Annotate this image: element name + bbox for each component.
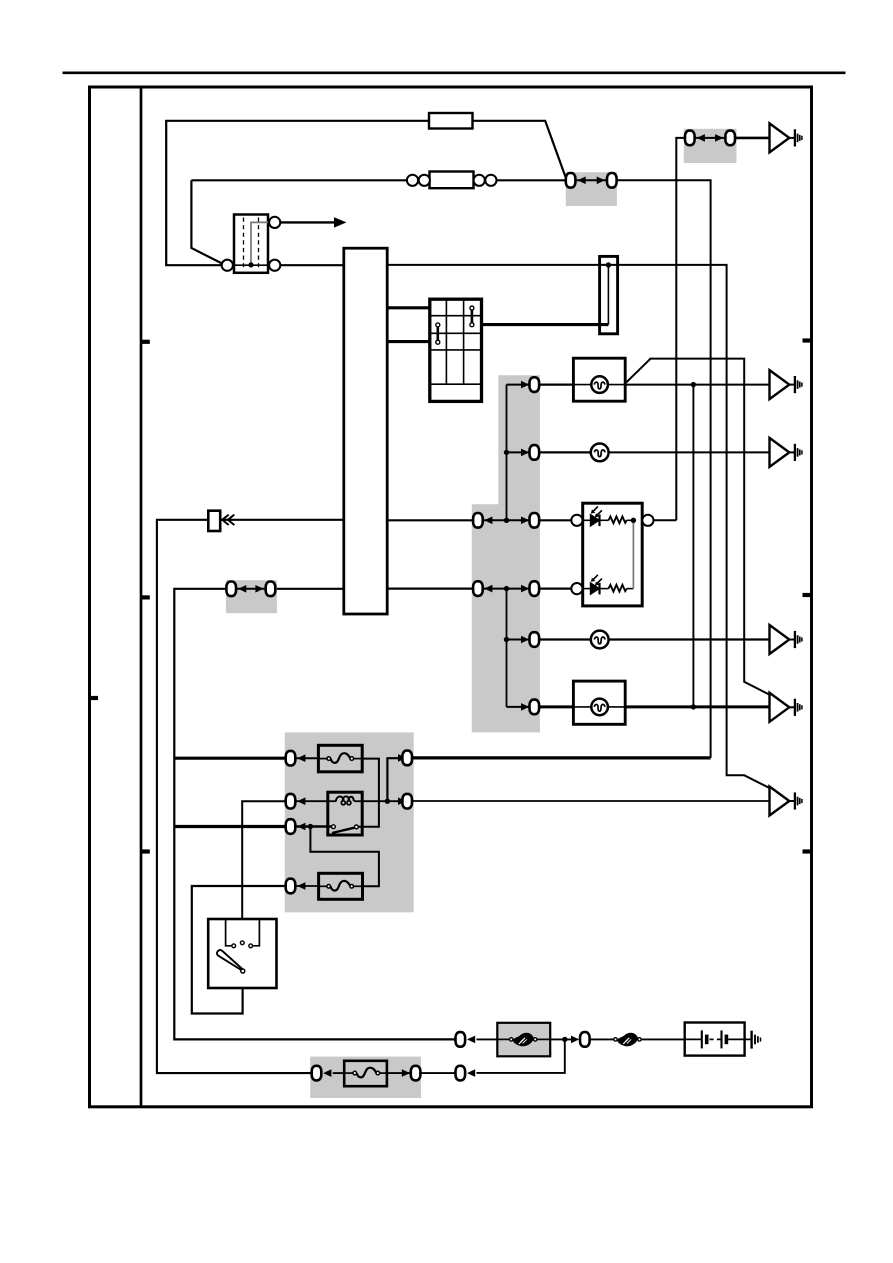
wire coil row: relay to oval2R — [362, 800, 401, 802]
arrow to other system — [281, 217, 347, 227]
wire row D left: ECU to pair C5 — [277, 588, 344, 590]
row F feed line — [507, 706, 530, 708]
relay coil — [328, 796, 362, 804]
pin circle LED left1 — [571, 515, 582, 526]
wire row1 arrow line to fuse F1 — [296, 757, 318, 759]
ECU block U1 — [344, 248, 387, 614]
wire W1 right segment — [473, 121, 566, 177]
bulb L4 — [591, 699, 608, 716]
connector oval 3L with arrow — [286, 819, 306, 834]
wire lamp1 diagonal tap to y358.6 — [626, 359, 770, 695]
wire row B: lamp2 to ground G3 — [608, 451, 769, 453]
gray highlight: junction-connector band (rows A-F) — [472, 375, 540, 732]
connector pin ovals row D with arrows — [473, 581, 539, 596]
junction dots on busbars — [504, 450, 509, 455]
wire row C: CR to LED pin — [540, 519, 571, 521]
wire W2 horizontal — [191, 179, 565, 181]
wire row3 thick left feed — [174, 825, 285, 828]
wire W2 left drop — [191, 180, 221, 263]
ground G2 — [770, 370, 802, 399]
wire C1 pair to ground G1 — [736, 137, 770, 140]
connector pair C1 top right — [685, 131, 735, 146]
pin circle NF bottom-right — [269, 260, 280, 271]
wire NF to ECU — [280, 264, 344, 266]
connector oval 1R with arrow — [398, 751, 412, 766]
wire F1 out down to relay contact — [357, 759, 379, 827]
junction dot relay coil row — [385, 799, 390, 804]
S1 contact bar col1 — [436, 323, 440, 344]
junction dot bottom — [562, 1037, 567, 1042]
ground G5 — [770, 693, 802, 722]
fuse F3 internal stubs — [344, 1072, 353, 1074]
pin circle W2-c — [474, 175, 485, 186]
section tick left-inner y597 — [141, 595, 150, 599]
switch SW box — [208, 919, 276, 988]
junction dot JB — [606, 262, 611, 267]
connector oval 1L with arrow — [286, 751, 306, 766]
fuse F2 symbol — [327, 881, 354, 891]
chevrons into R3 — [222, 515, 234, 525]
SW pivot — [241, 969, 245, 973]
connector pair C5 — [226, 582, 275, 597]
connector pin ovals row C with arrows — [473, 513, 539, 528]
wire from C1 pair to vertical x676 — [676, 138, 684, 520]
wire coil row: oval2L to relay box — [296, 800, 328, 802]
wire gear switch output to JB — [482, 323, 609, 326]
JB internal drop — [607, 265, 609, 325]
pin circle NF top-right — [269, 217, 280, 228]
pin circle W2-d — [485, 175, 496, 186]
connector R3 small rect — [208, 511, 220, 531]
wire ECU to gear switch row1 — [387, 306, 430, 309]
FL internal stubs — [497, 1038, 510, 1040]
connector oval 2R with arrow — [398, 794, 412, 809]
row 1039 oval left — [456, 1032, 466, 1047]
section tick left-outer y698 — [90, 696, 99, 700]
ground G3 — [770, 438, 802, 467]
vertical link x693 row A to row F — [692, 385, 694, 707]
wire to fuse F3 — [333, 1072, 345, 1074]
resistor in LED row1 — [609, 517, 627, 524]
connector pair C2 on wire2 — [566, 173, 617, 188]
pin circle W2-a — [407, 175, 418, 186]
noise filter NF box with dashed shield — [234, 215, 270, 273]
row A feed line — [507, 384, 530, 386]
SW right contact — [249, 919, 260, 948]
gray highlight: connector pair C2 (wire2) — [566, 172, 617, 206]
connector oval 4L with arrow — [286, 879, 306, 894]
wire FL2 to battery — [641, 1038, 685, 1040]
wire y265 through JB — [600, 264, 618, 266]
row E feed line — [507, 639, 530, 641]
wire row C far left with drop x157 — [157, 520, 311, 1073]
wire row D: DR to LED pin — [540, 587, 571, 589]
outer border frame — [90, 87, 812, 1107]
junction dot LED — [631, 518, 636, 523]
fusible link FL2 — [614, 1033, 641, 1047]
wire to FL2 — [590, 1038, 615, 1040]
top horizontal rule — [63, 72, 846, 75]
gray highlight: bottom fuse box — [310, 1057, 421, 1098]
bulb L3 — [591, 631, 609, 649]
fuse F1 box — [318, 745, 362, 772]
wire ECU to gear switch row3 — [387, 340, 430, 343]
fuse F1 internal stubs — [318, 758, 327, 760]
connector pin oval row A with arrow — [521, 377, 539, 392]
gray highlight: relay/fuse block — [285, 732, 414, 912]
wire G6 feed: oval2R to ground — [413, 800, 770, 802]
wire W1 top loop — [166, 121, 429, 265]
LED unit box — [583, 503, 643, 606]
fuse F3 box — [344, 1061, 387, 1086]
wire thick row1 right: oval1R to x710 — [413, 756, 711, 759]
wire F3 to oval — [387, 1072, 410, 1074]
drop to row 1073 — [477, 1039, 565, 1073]
gray highlight: connector pair C1 (top right) — [684, 129, 737, 163]
gray highlight: connector pair C5 (row D left) — [226, 580, 277, 613]
pin circle W2-b — [419, 175, 430, 186]
battery BAT — [685, 1023, 752, 1056]
wire FL to dot — [550, 1038, 575, 1040]
relay contacts — [332, 825, 359, 833]
wire row3: oval3L to relay — [296, 825, 332, 827]
S1 contact bar col3 — [470, 306, 474, 327]
section tick right y595 — [803, 593, 812, 597]
bulb L1 — [591, 376, 608, 393]
wire to FL box — [477, 1038, 498, 1040]
wire row C: ECU to oval CL — [387, 519, 472, 521]
connector pin oval row B with arrow — [521, 445, 539, 460]
wire row F: lamp4 to ground G5 — [625, 705, 769, 708]
junction box JB tall — [600, 256, 618, 333]
row 1073: oval far left — [312, 1066, 322, 1081]
wire row4 left loop to ignition switch — [192, 886, 285, 1014]
fuse F1 symbol — [327, 753, 354, 763]
wire relay feed riser to oval1R — [387, 758, 401, 801]
ground G1 — [770, 123, 802, 152]
LED D1 — [590, 507, 602, 527]
connector pin oval row E with arrow — [521, 632, 539, 647]
resistor box R2 on wire W2 — [430, 172, 474, 189]
wire row A: lamp1 to ground G2 — [625, 384, 769, 386]
wire coil row left: oval2L to switch drop — [242, 801, 285, 941]
wire W2 right segment to drop — [617, 180, 710, 758]
wire row B: oval to lamp2 — [540, 451, 591, 453]
connector oval 2L with arrow — [286, 794, 306, 809]
SW left contact — [226, 919, 236, 948]
wire to oval3 — [421, 1072, 455, 1074]
SW middle contact — [240, 941, 244, 945]
wire row D: ECU to oval DL — [387, 587, 472, 589]
wire LED right pin to x676 — [654, 519, 677, 521]
busbar net2 vertical in junction band — [506, 589, 508, 707]
wire row E: lamp3 to ground G4 — [608, 638, 769, 640]
section tick left-inner y341 — [141, 340, 150, 344]
junction dot row3 — [308, 824, 313, 829]
inner border vertical — [140, 87, 143, 1107]
section tick right y340 — [803, 338, 812, 342]
wire row4: fuse F2 to oval4L — [296, 885, 319, 887]
pin circle LED right — [642, 515, 653, 526]
fuse F2 internal stubs — [319, 885, 327, 887]
oval right of dot — [571, 1036, 579, 1044]
lamp4 box — [573, 681, 625, 724]
section tick right y851 — [803, 849, 812, 853]
wire row C left: ECU to connector R3 — [220, 519, 344, 521]
LED D2 — [590, 575, 602, 595]
gear position switch S1 grid — [430, 299, 482, 401]
bulb L2 — [591, 444, 609, 462]
pin circle NF bottom-left — [222, 260, 233, 271]
SW lever — [217, 950, 243, 971]
pin circle LED left2 — [571, 583, 582, 594]
battery ground bars — [752, 1031, 761, 1049]
ground G4 — [770, 625, 802, 654]
FL symbol — [510, 1033, 537, 1047]
wire ECU right y265 to drop x726 — [387, 265, 770, 788]
wire row E: oval to lamp3 — [540, 638, 591, 640]
section tick left-inner y851 — [141, 849, 150, 853]
resistor in LED row2 — [609, 585, 627, 592]
busbar net1 vertical in junction band — [506, 385, 508, 521]
fuse F3 symbol — [353, 1068, 380, 1078]
wire row A: oval to lamp1 — [540, 384, 574, 386]
row B feed line — [507, 451, 530, 453]
wire row1 thick left feed — [174, 757, 285, 760]
wire row F: oval to lamp4 — [540, 705, 574, 708]
lamp1 box (taillight) — [573, 358, 625, 401]
wire row D far left with drop x174 — [174, 589, 455, 1040]
fusible link FL box — [497, 1023, 550, 1057]
wire row3 drop to fuse F2 — [310, 827, 379, 887]
fuse F2 box — [319, 873, 363, 899]
relay RL box — [328, 792, 362, 835]
wire row D: DL-DR link — [478, 588, 534, 590]
ground G6 — [770, 787, 802, 816]
resistor box R1 on wire W1 — [429, 113, 473, 129]
connector pin oval row F with arrow — [521, 700, 539, 715]
wire row C: CL-CR link — [478, 519, 534, 521]
